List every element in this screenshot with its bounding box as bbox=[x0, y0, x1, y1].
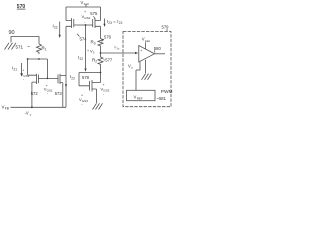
label VGS2 bbox=[82, 10, 91, 24]
svg-text:FB: FB bbox=[5, 107, 9, 111]
svg-text:GS3: GS3 bbox=[103, 89, 109, 93]
svg-text:90: 90 bbox=[9, 30, 15, 36]
label VGS3 (right of 578) bbox=[101, 83, 110, 96]
svg-text:y: y bbox=[30, 113, 32, 117]
svg-text:=: = bbox=[113, 19, 116, 24]
node junction at R1 bottom bbox=[38, 58, 40, 60]
svg-text:+: + bbox=[87, 49, 89, 53]
node label -Vy bbox=[25, 111, 32, 117]
svg-text:~: ~ bbox=[27, 44, 30, 50]
transistor Q575 (right PMOS) bbox=[93, 7, 101, 28]
node +V3 bbox=[100, 52, 102, 54]
svg-text:2: 2 bbox=[95, 60, 97, 64]
svg-text:3a: 3a bbox=[116, 47, 119, 51]
svg-text:-V: -V bbox=[25, 111, 29, 116]
svg-text:y: y bbox=[131, 66, 133, 70]
svg-text:22: 22 bbox=[54, 26, 58, 30]
svg-text:-: - bbox=[84, 20, 86, 24]
svg-text:+: + bbox=[140, 49, 142, 53]
op-amp output wire bbox=[155, 53, 166, 55]
label VGS3 (below-left of 578) bbox=[79, 94, 88, 107]
label 577 with tilde bbox=[103, 58, 113, 63]
current arrowhead I22 center bbox=[84, 69, 86, 72]
dashed box 579 bbox=[123, 32, 171, 107]
transistor Q572 bbox=[28, 74, 39, 108]
label 90 bbox=[9, 30, 15, 36]
Vbatt supply to op-amp bbox=[142, 37, 150, 43]
VREF box 581 bbox=[127, 90, 156, 100]
svg-text:PWM: PWM bbox=[161, 89, 173, 95]
svg-text:573: 573 bbox=[55, 91, 63, 96]
gate wire between 572 and 573 bbox=[39, 77, 59, 79]
ground (left, for R1) bbox=[5, 43, 17, 50]
wire left mirror branch (PMOS574 drain down to rail) bbox=[65, 26, 67, 107]
node and gate loop of 578 bbox=[100, 72, 102, 74]
resistor R1 bbox=[37, 44, 42, 54]
svg-text:GS3: GS3 bbox=[82, 99, 88, 103]
svg-text:571: 571 bbox=[16, 45, 24, 50]
PMOS gate wire with center tap bbox=[74, 25, 93, 71]
current arrow I23 = I22 bbox=[104, 19, 106, 26]
svg-text:22: 22 bbox=[80, 57, 84, 61]
label PWM bbox=[161, 89, 173, 95]
transistor Q578 bbox=[90, 73, 101, 104]
svg-text:575: 575 bbox=[90, 11, 98, 16]
wire inverting input to VREF bbox=[136, 62, 140, 90]
resistor R2 bbox=[98, 53, 103, 73]
node junction left bbox=[27, 58, 29, 60]
op-amp U580 bbox=[139, 46, 155, 63]
svg-text:~577: ~577 bbox=[103, 58, 113, 63]
svg-text:REF: REF bbox=[137, 97, 143, 101]
svg-text:3: 3 bbox=[94, 42, 96, 46]
wire tap down to gate rail bbox=[46, 59, 48, 78]
svg-text:1: 1 bbox=[45, 48, 47, 52]
svg-text:3: 3 bbox=[93, 50, 95, 54]
wire R1 bottom node row bbox=[28, 58, 48, 60]
label VGS1 (572 gate-source) bbox=[21, 69, 30, 82]
svg-text:21: 21 bbox=[14, 68, 18, 72]
svg-text:580: 580 bbox=[154, 46, 162, 51]
svg-text:GS1: GS1 bbox=[23, 74, 29, 78]
svg-text:batt: batt bbox=[145, 39, 150, 43]
svg-text:+: + bbox=[84, 10, 86, 14]
node label Vy bbox=[128, 64, 133, 70]
current arrow I21 bbox=[21, 63, 23, 75]
svg-text:572: 572 bbox=[31, 91, 39, 96]
svg-text:579: 579 bbox=[162, 25, 170, 30]
svg-text:23: 23 bbox=[108, 21, 112, 25]
label 570 (figure reference, underlined) bbox=[17, 4, 26, 10]
wire down to 572 drain bbox=[27, 59, 29, 75]
ground (under 578) bbox=[93, 103, 103, 109]
svg-text:576: 576 bbox=[104, 35, 112, 40]
svg-text:batt: batt bbox=[84, 2, 89, 6]
op-amp ground bbox=[145, 60, 147, 73]
wire V3 node to comparator input bbox=[101, 52, 137, 54]
svg-text:~581: ~581 bbox=[157, 96, 167, 101]
node junction gate tap bbox=[47, 78, 49, 80]
current arrow I22 upper bbox=[59, 22, 61, 37]
wire label V3a bbox=[114, 46, 120, 51]
current arrowhead I22 lower bbox=[65, 84, 67, 87]
svg-text:22: 22 bbox=[119, 21, 123, 25]
label 576 with pointer bbox=[104, 35, 112, 40]
resistor R3 bbox=[98, 26, 103, 53]
svg-text:574: 574 bbox=[80, 37, 88, 42]
wire R1 top to ground bbox=[11, 37, 39, 45]
Vbatt rail bbox=[66, 5, 101, 7]
transistor Q573 bbox=[58, 74, 66, 108]
svg-text:578: 578 bbox=[82, 75, 90, 80]
bottom rail node VFB bbox=[11, 106, 67, 108]
label 571 with tilde pointer bbox=[16, 44, 31, 50]
svg-text:22: 22 bbox=[71, 76, 75, 80]
label VGS1 between pair bbox=[44, 84, 53, 96]
transistor Q574 (left PMOS) bbox=[66, 7, 74, 28]
